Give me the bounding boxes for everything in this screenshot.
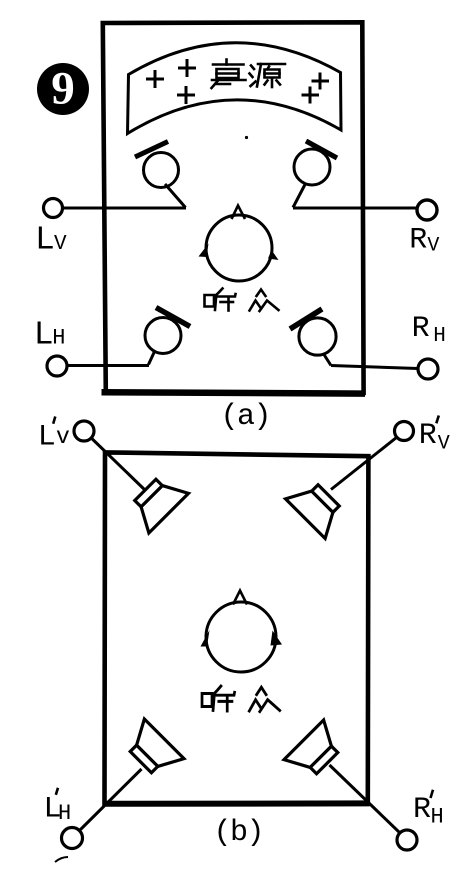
speaker bottom-left: [121, 719, 184, 782]
wire Lh: [66, 364, 149, 367]
svg-text:V: V: [427, 234, 439, 257]
room (b) boundary: [105, 452, 369, 803]
feed line bottom-right: [330, 765, 401, 833]
wire Lv: [62, 207, 186, 210]
label 源 (source): [250, 64, 286, 87]
label 声 (sound): [212, 60, 246, 89]
terminal Lv: [44, 199, 63, 218]
svg-text:(b): (b): [214, 816, 264, 850]
svg-text:H: H: [431, 805, 444, 830]
terminal Rv: [417, 200, 437, 220]
svg-text:L: L: [34, 316, 54, 353]
svg-text:H: H: [58, 801, 71, 826]
room (a) boundary: [103, 22, 364, 393]
label 听众 (b): [202, 686, 280, 711]
plus marks: [146, 59, 329, 104]
wire Rh: [331, 366, 418, 369]
terminal L'v: [74, 421, 94, 441]
speaker top-left: [126, 470, 189, 533]
svg-text:v: v: [56, 424, 70, 450]
svg-text:V: V: [438, 433, 450, 456]
terminal R'v: [395, 422, 414, 441]
svg-text:V: V: [54, 233, 67, 256]
svg-text:(a): (a): [221, 400, 271, 434]
microphone top-left: [135, 142, 186, 208]
svg-text:L: L: [35, 222, 55, 259]
feed line top-right: [331, 432, 404, 490]
microphone bottom-left: [145, 308, 190, 365]
wire Rv: [293, 207, 418, 210]
feed line bottom-left: [79, 769, 142, 831]
terminal L'h: [62, 828, 83, 849]
svg-text:R: R: [409, 224, 427, 258]
terminal Rh: [418, 359, 438, 379]
svg-text:R: R: [419, 419, 437, 453]
terminal R'h: [397, 830, 417, 850]
stray tick bottom-left: [55, 857, 68, 862]
feed line top-left: [84, 431, 147, 492]
svg-text:9: 9: [51, 63, 75, 115]
speaker bottom-right: [284, 720, 347, 783]
terminal Lh: [47, 356, 67, 376]
svg-text:H: H: [52, 326, 65, 351]
listener head (b): [201, 591, 283, 673]
label 听众 (a): [205, 289, 279, 312]
svg-text:L: L: [38, 421, 56, 455]
microphone bottom-right: [290, 309, 336, 366]
speck dot: [245, 136, 248, 139]
svg-text:H: H: [433, 325, 446, 348]
sound source band: [128, 43, 342, 134]
badge 9: [37, 63, 89, 116]
listener head (a): [199, 206, 279, 282]
svg-text:R: R: [413, 793, 431, 827]
speaker top-right: [286, 476, 349, 539]
svg-text:R: R: [412, 312, 430, 346]
microphone top-right: [293, 141, 337, 208]
